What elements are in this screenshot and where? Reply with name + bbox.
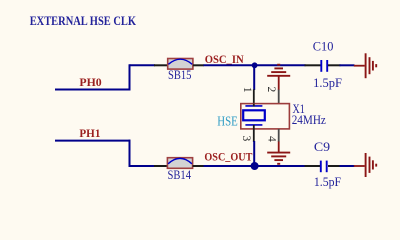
junction dot OSC_OUT	[251, 162, 259, 170]
crystal X1 body	[241, 104, 290, 129]
wire corner to SB15	[130, 64, 156, 66]
capacitor C10 right plate	[326, 60, 328, 72]
svg-text:SB15: SB15	[168, 68, 191, 82]
ground (pin 4) stem	[278, 142, 280, 153]
crystal pin1 internal stub	[253, 104, 255, 107]
ground (bottom right) bar tallest	[365, 153, 367, 177]
wire pin3 to junction	[253, 141, 255, 166]
ground (top right) bar smallest	[375, 64, 377, 67]
pin 3 of X1	[253, 125, 255, 142]
ground (bottom right) bar 3	[372, 160, 374, 169]
wire PH0 horizontal	[55, 89, 131, 91]
ground (pin 4) bar 3	[274, 159, 283, 161]
svg-text:EXTERNAL HSE CLK: EXTERNAL HSE CLK	[30, 13, 137, 28]
crystal bottom plate	[245, 124, 262, 126]
svg-text:SB14: SB14	[168, 168, 192, 182]
crystal top plate	[245, 105, 262, 107]
pin 4 of X1	[278, 129, 280, 142]
svg-text:PH1: PH1	[79, 126, 100, 140]
pin SB15 left (black)	[154, 64, 168, 66]
svg-text:24MHz: 24MHz	[292, 113, 327, 127]
pin 1 of X1	[253, 89, 255, 106]
wire junction to pin1	[253, 65, 255, 90]
svg-text:3: 3	[240, 136, 252, 142]
svg-text:PH0: PH0	[79, 75, 101, 89]
wire corner to SB14	[130, 165, 156, 167]
svg-text:HSE: HSE	[217, 114, 238, 129]
ground (top right) bar 3	[372, 61, 374, 71]
pin C9 right (black)	[328, 165, 341, 167]
capacitor C9 left plate	[320, 161, 322, 173]
wire PH1 horizontal	[55, 140, 131, 142]
solder bridge SB14 body	[167, 158, 192, 169]
svg-text:C9: C9	[314, 140, 330, 154]
capacitor C10 left plate	[320, 60, 322, 72]
SB14 arc	[168, 158, 192, 163]
ground (pin 4) bar smallest	[277, 163, 280, 165]
svg-text:2: 2	[265, 87, 277, 93]
wire PH0 vertical riser	[129, 64, 131, 90]
ground (bottom right) bar smallest	[375, 164, 377, 167]
pin SB15 right (black)	[193, 64, 204, 66]
ground (bottom right) stem	[354, 165, 365, 167]
wire C10 to ground	[340, 64, 355, 66]
capacitor C9 right plate	[326, 161, 328, 173]
pin SB14 left (black)	[154, 165, 168, 167]
svg-text:1.5pF: 1.5pF	[314, 174, 341, 189]
pin 2 of X1	[278, 90, 280, 104]
ground (top right) bar 2	[369, 57, 371, 74]
SB15 arc	[168, 59, 192, 64]
svg-text:1.5pF: 1.5pF	[313, 75, 342, 90]
wire OSC_IN	[204, 64, 306, 66]
pin C10 left (black)	[305, 64, 321, 66]
ground (pin 4) bar widest	[267, 152, 290, 154]
wire OSC_OUT	[204, 165, 306, 167]
ground (pin 2) bar smallest	[277, 64, 280, 66]
ground (pin 2) bar widest	[267, 75, 290, 77]
svg-text:OSC_OUT: OSC_OUT	[204, 150, 252, 164]
pin C9 left (black)	[305, 165, 321, 167]
ground (pin 4) bar 2	[271, 155, 286, 157]
ground (pin 2) bar 3	[274, 67, 283, 69]
ground (top right) stem	[354, 65, 365, 67]
ground (top right) bar tallest	[365, 53, 367, 78]
svg-text:4: 4	[265, 136, 277, 142]
svg-text:OSC_IN: OSC_IN	[205, 52, 244, 66]
pin SB14 right (black)	[193, 165, 204, 167]
crystal element rect	[243, 110, 265, 120]
svg-text:C10: C10	[313, 40, 334, 54]
svg-text:1: 1	[241, 87, 253, 93]
ground (bottom right) bar 2	[369, 157, 371, 173]
junction dot OSC_IN	[252, 62, 258, 68]
wire PH1 vertical riser	[129, 140, 131, 167]
pin C10 right (black)	[328, 64, 341, 66]
wire C9 to ground	[340, 165, 355, 167]
solder bridge SB15 body	[168, 59, 193, 70]
ground (pin 2, inverted) stem	[278, 76, 280, 90]
ground (pin 2) bar 2	[271, 71, 286, 73]
